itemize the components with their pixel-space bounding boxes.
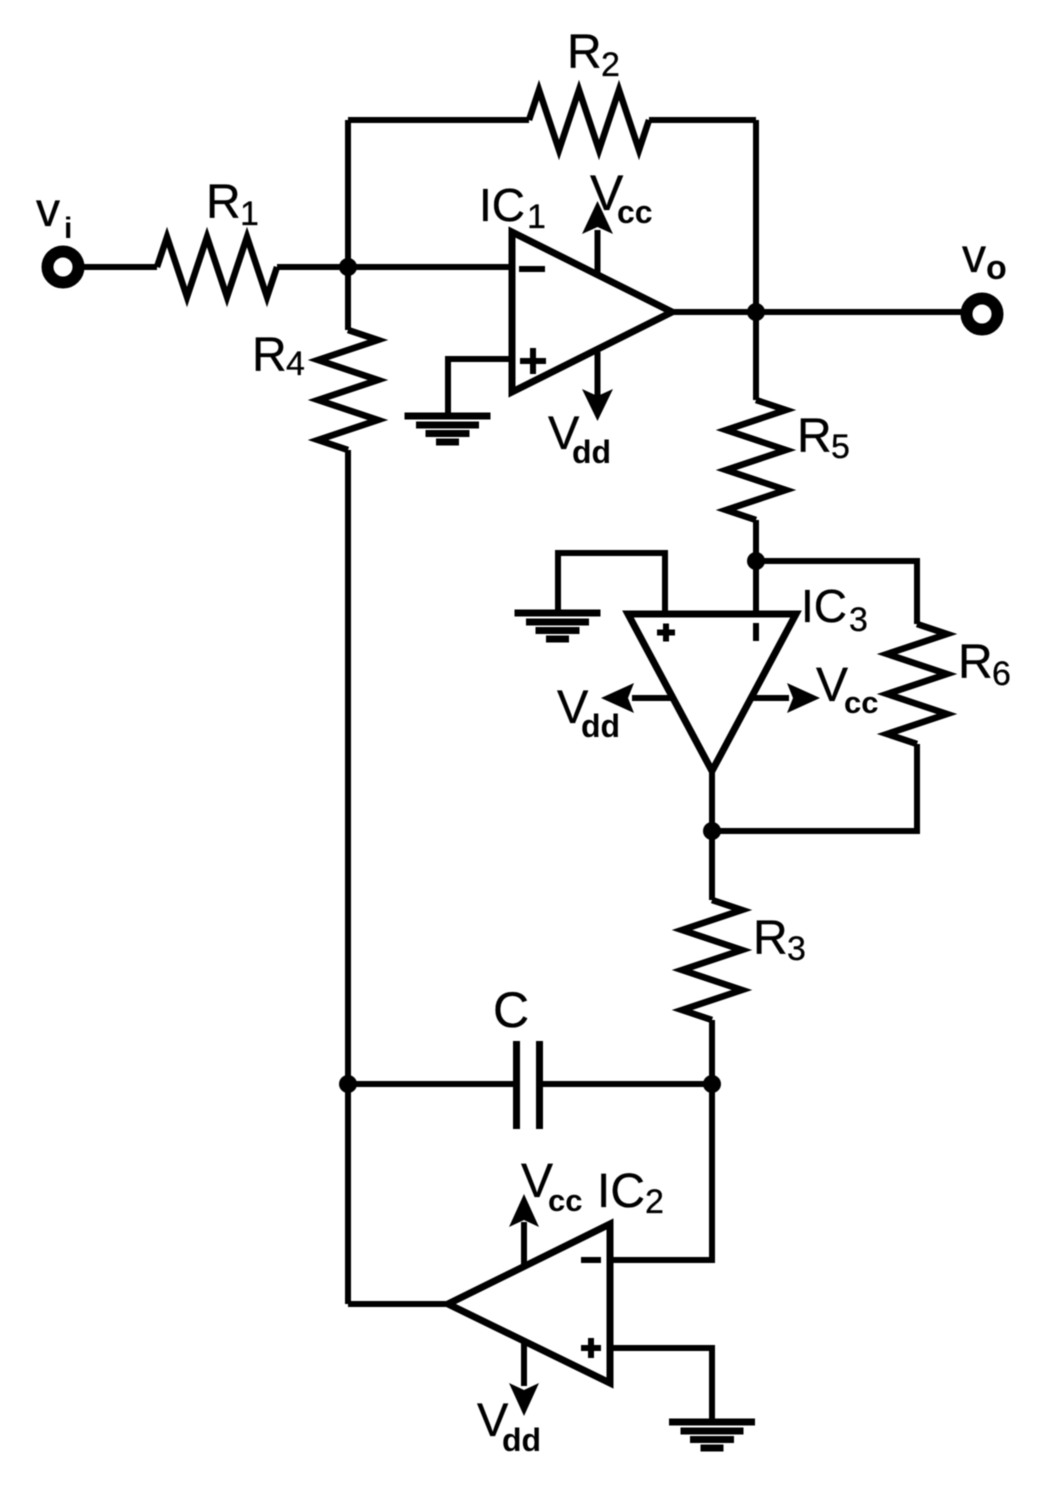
output node junction dot <box>747 303 765 321</box>
op-amp IC2 minus sign <box>581 1257 601 1263</box>
svg-text:cc: cc <box>548 1183 582 1218</box>
svg-text:dd: dd <box>572 434 611 470</box>
svg-text:v: v <box>36 184 60 237</box>
wire node B to IC3 inverting input <box>753 561 759 614</box>
svg-text:IC: IC <box>597 1165 645 1218</box>
op-amp IC3 plus sign <box>657 624 675 642</box>
wire IC2 output to left rail <box>348 1301 448 1307</box>
svg-text:i: i <box>64 212 72 245</box>
wire vi to R1 <box>84 264 157 270</box>
wire right rail down to output node <box>753 120 759 312</box>
resistor R6 <box>887 624 947 744</box>
node E junction dot <box>703 1075 721 1093</box>
Vdd arrow at IC2 <box>509 1341 539 1416</box>
svg-text:2: 2 <box>645 1183 664 1221</box>
input terminal vi circle <box>48 252 79 283</box>
svg-text:R: R <box>958 636 993 689</box>
wire IC3 output to node C <box>709 771 715 900</box>
resistor R3 <box>682 900 742 1020</box>
op-amp IC2 plus sign <box>581 1338 601 1358</box>
svg-text:2: 2 <box>601 46 620 84</box>
op-amp U1 IC1 triangle <box>512 232 672 392</box>
svg-text:R: R <box>567 26 602 79</box>
node A junction dot <box>339 258 357 276</box>
svg-text:o: o <box>986 249 1007 287</box>
resistor R5 <box>726 400 786 520</box>
wire node A to IC1 inverting input <box>348 264 512 270</box>
wire node D to capacitor C <box>348 1081 513 1087</box>
resistor R2 <box>529 90 649 150</box>
wire capacitor C to node E <box>543 1081 712 1087</box>
Vcc arrow at IC2 <box>509 1194 539 1267</box>
svg-text:cc: cc <box>844 685 878 720</box>
svg-text:1: 1 <box>240 195 259 233</box>
wire IC1 noninverting input <box>448 359 512 413</box>
node D junction dot <box>339 1075 357 1093</box>
wire node B to R6 top <box>756 561 917 624</box>
op-amp U2 IC2 triangle <box>448 1224 610 1383</box>
svg-text:5: 5 <box>831 428 850 466</box>
ground at IC3 noninverting input <box>515 613 601 639</box>
wire top feedback right <box>649 117 756 123</box>
svg-text:dd: dd <box>581 708 620 744</box>
Vdd arrow at IC1 <box>582 352 613 421</box>
output terminal vo circle <box>967 299 998 330</box>
resistor R1 <box>157 237 277 297</box>
Vcc arrow at IC3 <box>751 683 820 713</box>
wire IC1 output to vo <box>672 309 963 315</box>
wire R5 to node B <box>753 520 759 561</box>
svg-text:v: v <box>962 230 986 283</box>
Vdd arrow at IC3 <box>601 683 673 713</box>
op-amp IC3 minus sign (rotated) <box>753 623 759 641</box>
wire R1 to node A <box>277 264 348 270</box>
wire R3 to node E <box>709 1020 715 1084</box>
ground at IC1 noninverting input <box>405 416 491 442</box>
op-amp IC1 plus sign <box>520 348 546 374</box>
Vcc arrow at IC1 <box>582 201 613 274</box>
ground at IC2 noninverting input <box>669 1422 755 1448</box>
wire IC3 noninverting input to ground <box>558 553 665 614</box>
wire left rail upper <box>345 120 351 330</box>
node B junction dot <box>747 552 765 570</box>
svg-text:IC: IC <box>479 179 525 231</box>
svg-text:C: C <box>493 982 529 1038</box>
node C junction dot <box>703 822 721 840</box>
wire R6 bottom to node C <box>712 744 917 831</box>
wire IC2 noninverting input to ground <box>610 1348 712 1419</box>
svg-text:6: 6 <box>992 655 1011 693</box>
wire left rail lower <box>345 450 351 1304</box>
svg-text:R: R <box>797 410 832 463</box>
svg-text:R: R <box>206 176 241 229</box>
svg-text:1: 1 <box>527 198 546 236</box>
wire node E down to IC2 inverting input <box>610 1084 712 1260</box>
svg-text:4: 4 <box>286 345 305 383</box>
svg-text:dd: dd <box>502 1422 541 1458</box>
capacitor C plates <box>517 1041 540 1129</box>
svg-text:3: 3 <box>849 601 868 639</box>
svg-text:IC: IC <box>801 580 847 632</box>
svg-text:R: R <box>753 912 788 965</box>
op-amp IC1 minus sign <box>519 266 545 272</box>
wire output node down to R5 <box>753 312 759 400</box>
svg-text:cc: cc <box>617 194 653 230</box>
resistor R4 <box>318 330 378 450</box>
svg-text:3: 3 <box>787 930 806 968</box>
wire top feedback left <box>348 117 529 123</box>
op-amp U3 IC3 triangle <box>628 614 796 771</box>
svg-text:R: R <box>252 329 287 382</box>
